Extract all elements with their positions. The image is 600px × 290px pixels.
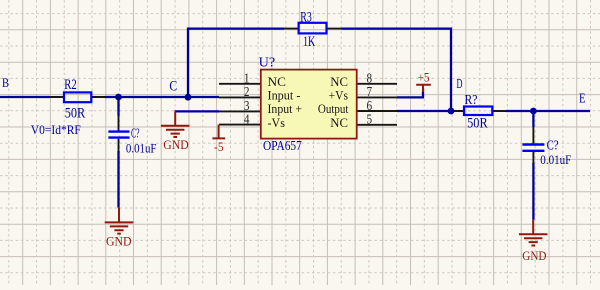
svg-text:R3: R3	[300, 10, 312, 26]
svg-text:C?: C?	[131, 125, 140, 140]
svg-text:GND: GND	[106, 235, 132, 249]
svg-text:+5: +5	[418, 70, 430, 85]
svg-text:E: E	[579, 91, 586, 106]
svg-text:1K: 1K	[303, 34, 316, 50]
svg-text:V0=Id*RF: V0=Id*RF	[31, 123, 81, 137]
svg-text:Input +: Input +	[268, 102, 303, 116]
svg-text:R2: R2	[64, 77, 77, 93]
svg-text:0.01uF: 0.01uF	[126, 140, 157, 155]
svg-text:NC: NC	[268, 75, 286, 89]
svg-text:-Vs: -Vs	[268, 116, 285, 130]
svg-text:C: C	[169, 78, 177, 94]
svg-text:GND: GND	[522, 249, 546, 263]
svg-text:-5: -5	[214, 139, 224, 154]
svg-text:+Vs: +Vs	[329, 89, 348, 103]
svg-text:4: 4	[244, 112, 250, 127]
svg-text:NC: NC	[330, 116, 348, 130]
svg-text:0.01uF: 0.01uF	[540, 152, 571, 167]
svg-text:NC: NC	[330, 75, 348, 89]
svg-text:GND: GND	[163, 138, 188, 152]
svg-text:5: 5	[367, 112, 373, 127]
svg-text:B: B	[2, 75, 9, 90]
svg-text:50R: 50R	[65, 106, 86, 122]
svg-text:Input -: Input -	[268, 89, 301, 103]
svg-text:Output: Output	[318, 102, 349, 116]
svg-text:U?: U?	[259, 55, 276, 70]
svg-text:50R: 50R	[467, 115, 488, 131]
svg-text:R?: R?	[465, 93, 478, 108]
svg-text:D: D	[457, 77, 463, 92]
svg-text:OPA657: OPA657	[263, 138, 302, 153]
